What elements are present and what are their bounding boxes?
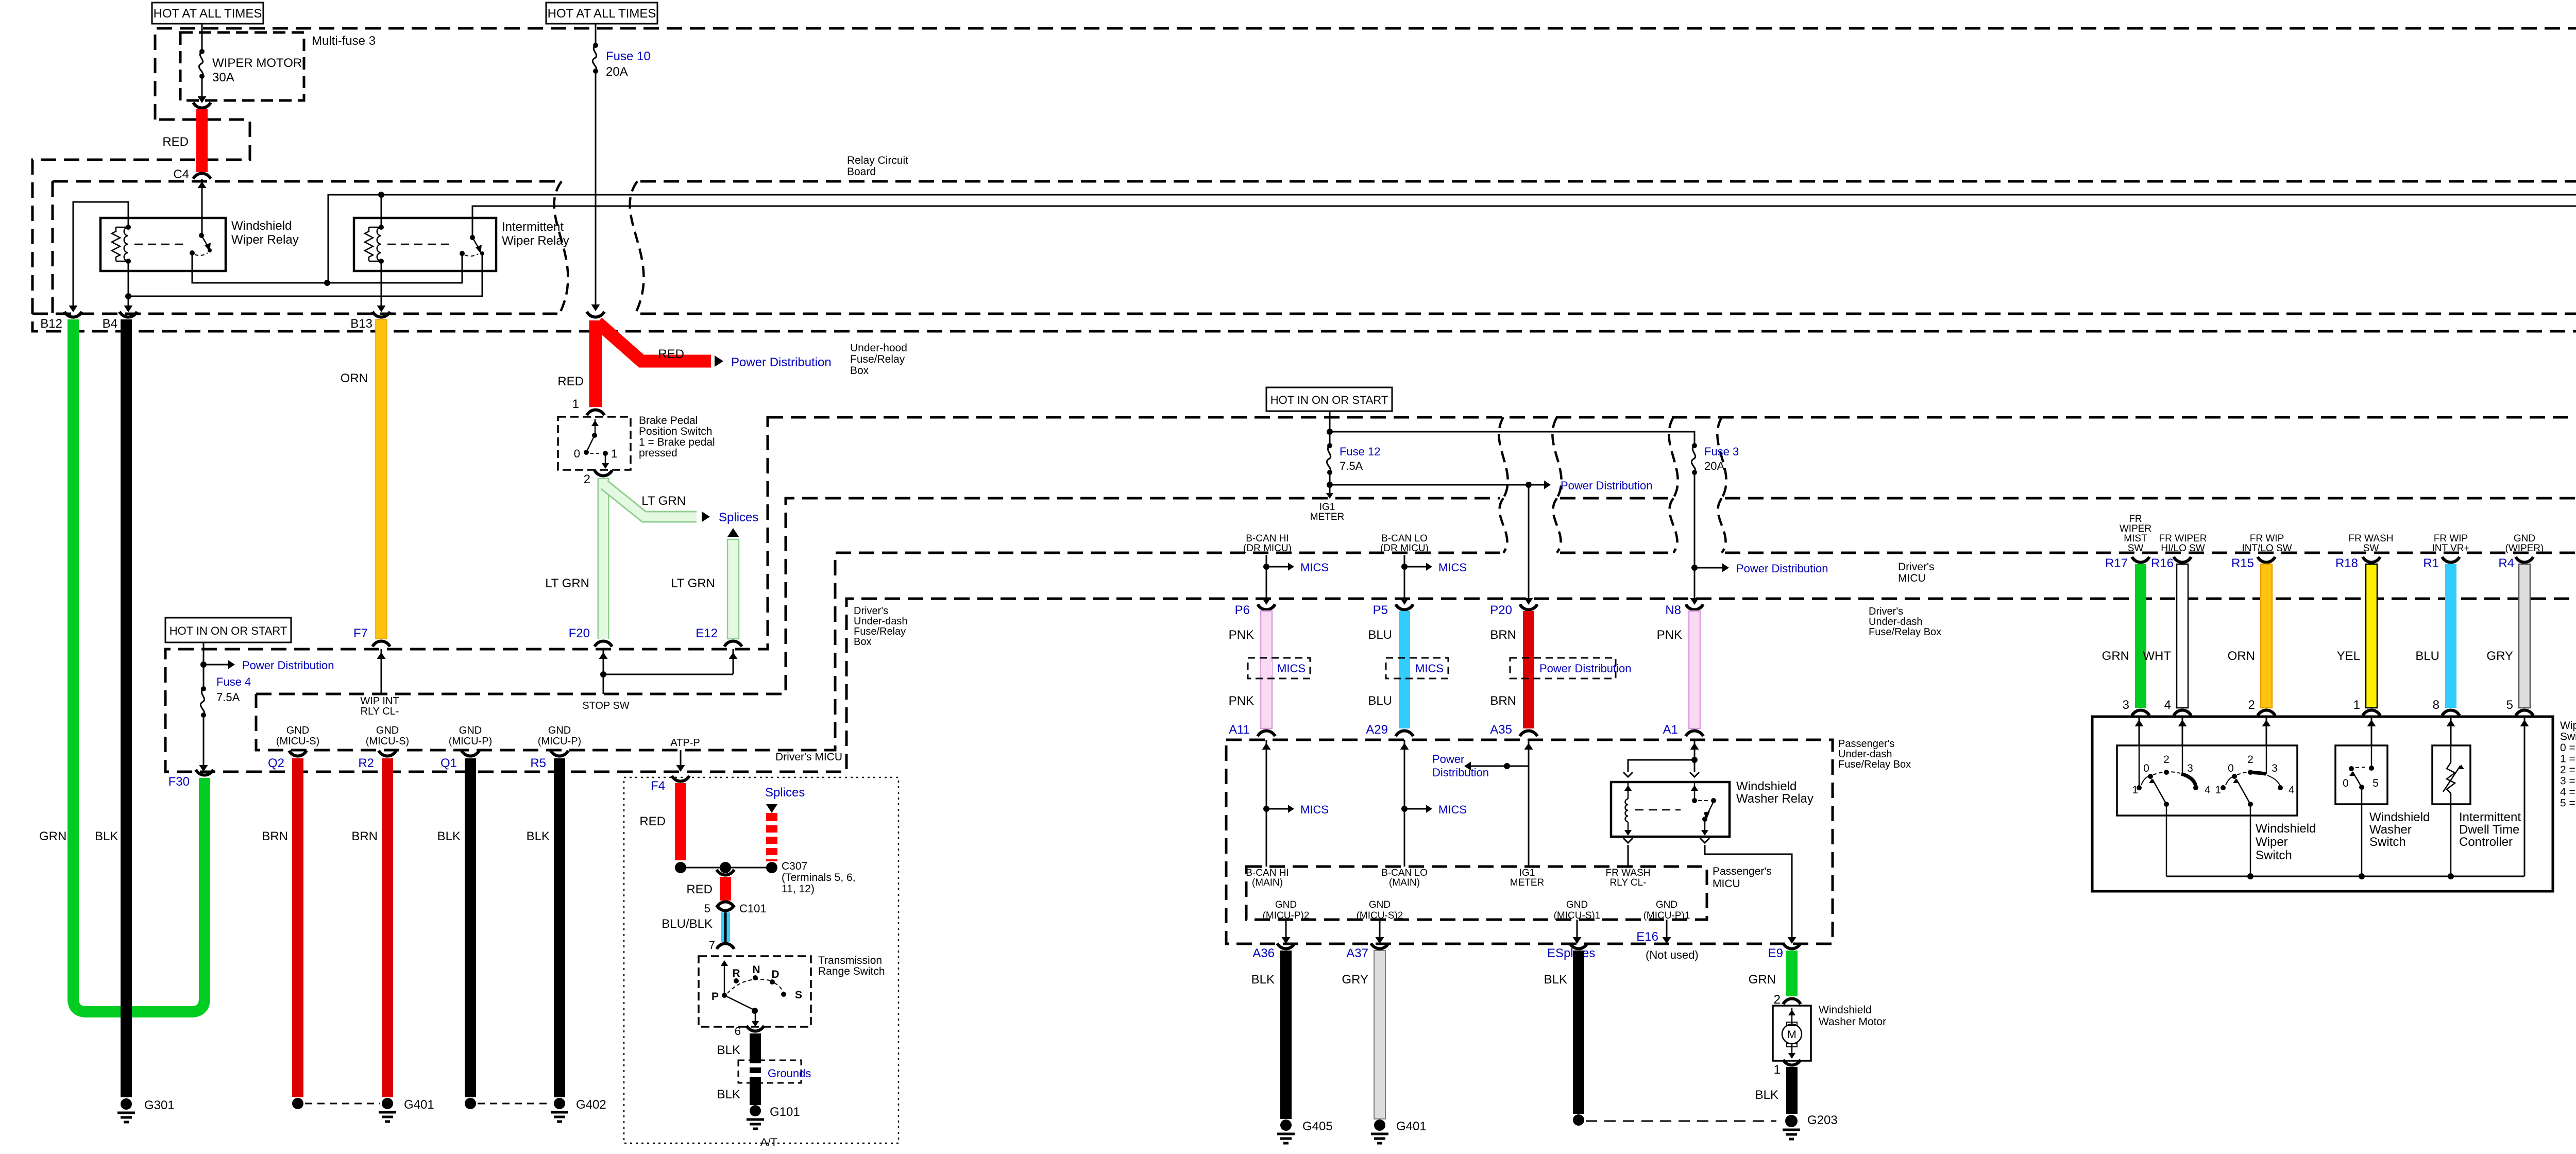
svg-text:4 = High: 4 = High <box>2560 786 2576 798</box>
svg-text:GRN: GRN <box>2102 649 2129 663</box>
wire relay1 NO contact line <box>192 253 462 283</box>
svg-text:B-CAN HI: B-CAN HI <box>1246 533 1289 544</box>
svg-text:0: 0 <box>574 447 580 460</box>
inline connector Power Distribution at P20 <box>1510 658 1616 678</box>
svg-text:pressed: pressed <box>639 447 677 459</box>
svg-text:Switch: Switch <box>2369 835 2406 849</box>
wire GRY A37 <box>1374 951 1385 1119</box>
svg-text:BRN: BRN <box>262 829 288 843</box>
svg-text:6: 6 <box>735 1025 741 1038</box>
svg-text:B13: B13 <box>350 317 372 331</box>
svg-text:GND: GND <box>376 725 399 736</box>
svg-text:BLK: BLK <box>717 1043 740 1057</box>
svg-text:Range Switch: Range Switch <box>818 965 885 977</box>
svg-text:F20: F20 <box>569 626 590 640</box>
svg-text:B-CAN HI: B-CAN HI <box>1246 868 1289 878</box>
wire PNK P6-A11 <box>1261 611 1272 728</box>
svg-text:GRN: GRN <box>39 829 66 843</box>
wiper/washer switch outer box <box>2092 717 2553 891</box>
svg-text:Wiper/Washer: Wiper/Washer <box>2560 720 2576 732</box>
svg-text:Dwell Time: Dwell Time <box>2459 823 2519 837</box>
svg-text:(MICU-S)1: (MICU-S)1 <box>1554 910 1601 921</box>
svg-text:Washer Motor: Washer Motor <box>1819 1016 1886 1028</box>
svg-text:FR: FR <box>2129 514 2142 524</box>
grounds inline connector <box>738 1060 801 1083</box>
svg-text:P20: P20 <box>1490 603 1512 617</box>
svg-text:1: 1 <box>2215 784 2221 796</box>
svg-text:Washer: Washer <box>2369 823 2412 837</box>
svg-text:RED: RED <box>639 814 666 828</box>
svg-text:7.5A: 7.5A <box>216 691 240 704</box>
svg-text:WIPER: WIPER <box>2120 523 2151 534</box>
driver's MICU break curves <box>1499 417 1507 498</box>
wire P5 feed <box>1404 555 1405 602</box>
svg-text:MICS: MICS <box>1415 662 1444 675</box>
svg-text:HOT IN ON OR START: HOT IN ON OR START <box>170 624 287 637</box>
svg-text:F30: F30 <box>168 775 190 789</box>
svg-text:Grounds: Grounds <box>768 1067 811 1080</box>
svg-text:B-CAN LO: B-CAN LO <box>1381 533 1428 544</box>
wire R5 BLK <box>554 758 565 1097</box>
svg-text:S: S <box>795 989 802 1001</box>
wire LT GRN E12 to splices <box>727 528 739 537</box>
fuse 12 7.5A <box>1327 443 1332 448</box>
svg-text:2 = Intermittent: 2 = Intermittent <box>2560 764 2576 776</box>
svg-text:N: N <box>752 964 760 976</box>
svg-text:A37: A37 <box>1346 946 1368 960</box>
svg-text:Fuse/Relay: Fuse/Relay <box>850 353 905 365</box>
wire BRN P20-A35 <box>1523 611 1534 728</box>
wire RED C4 <box>193 103 211 108</box>
svg-text:GND: GND <box>1275 900 1297 910</box>
svg-text:0: 0 <box>2343 777 2349 789</box>
svg-text:B4: B4 <box>103 317 117 331</box>
svg-text:BLU/BLK: BLU/BLK <box>662 917 713 931</box>
svg-text:GRN: GRN <box>1749 973 1776 987</box>
svg-text:GND: GND <box>2514 533 2535 544</box>
svg-text:BLK: BLK <box>1251 973 1275 987</box>
svg-text:Wiper Relay: Wiper Relay <box>231 233 299 247</box>
wire ORN R15 <box>2261 564 2272 708</box>
svg-text:Windshield: Windshield <box>1819 1004 1872 1016</box>
svg-text:MICS: MICS <box>1300 561 1329 574</box>
svg-text:GND: GND <box>1369 900 1391 910</box>
svg-text:20A: 20A <box>1704 460 1724 472</box>
svg-text:(MAIN): (MAIN) <box>1389 877 1420 888</box>
svg-text:Driver's MICU: Driver's MICU <box>775 751 842 763</box>
svg-text:F4: F4 <box>651 779 665 793</box>
svg-text:1: 1 <box>1774 1063 1781 1077</box>
svg-text:Driver's: Driver's <box>854 605 888 617</box>
inline connector MICS at P6 <box>1248 658 1310 678</box>
svg-text:Box: Box <box>854 636 871 648</box>
driver's MICU box outline <box>256 498 1500 694</box>
svg-text:ATP-P: ATP-P <box>670 737 700 749</box>
svg-text:WHT: WHT <box>2143 649 2171 663</box>
svg-text:R5: R5 <box>530 756 546 770</box>
svg-text:A36: A36 <box>1252 946 1275 960</box>
svg-text:G401: G401 <box>404 1098 434 1112</box>
svg-text:2: 2 <box>1774 993 1781 1007</box>
svg-text:(MICU-P)2: (MICU-P)2 <box>1263 910 1310 921</box>
svg-text:MICU: MICU <box>1713 878 1740 890</box>
svg-text:(Terminals 5, 6,: (Terminals 5, 6, <box>782 872 856 884</box>
wiper switch rotary 2 <box>2266 745 2267 773</box>
svg-text:G401: G401 <box>1396 1119 1427 1133</box>
HOT IN ON OR START box 1 <box>165 618 291 642</box>
svg-text:Wiper Relay: Wiper Relay <box>502 234 569 248</box>
svg-text:Q1: Q1 <box>440 756 457 770</box>
passenger's under-dash fuse/relay box <box>1226 740 1833 944</box>
svg-text:P6: P6 <box>1235 603 1250 617</box>
svg-text:Position Switch: Position Switch <box>639 426 712 437</box>
svg-text:F7: F7 <box>353 626 368 640</box>
wire YEL R18 <box>2366 564 2377 708</box>
svg-text:0 = Off: 0 = Off <box>2560 742 2576 754</box>
svg-text:3: 3 <box>2123 698 2129 712</box>
wire LT GRN branch to splices <box>604 485 697 517</box>
windshield wiper relay <box>100 218 226 271</box>
svg-text:(DR MICU): (DR MICU) <box>1243 543 1292 554</box>
svg-text:Splices: Splices <box>765 786 805 800</box>
svg-text:WIPER MOTOR: WIPER MOTOR <box>212 56 302 70</box>
wire BLK A36 <box>1280 951 1292 1119</box>
svg-text:ESplices: ESplices <box>1547 946 1595 960</box>
intermittent wiper relay <box>354 218 496 271</box>
ground G203 <box>1785 1115 1798 1127</box>
svg-text:Intermittent: Intermittent <box>502 220 564 234</box>
svg-text:1: 1 <box>2132 784 2138 796</box>
inline connector MICS at P5 <box>1386 658 1448 678</box>
svg-text:Switch: Switch <box>2256 848 2292 862</box>
svg-text:WIP INT: WIP INT <box>360 695 399 707</box>
svg-text:Q2: Q2 <box>268 756 284 770</box>
svg-text:(MICU-P)1: (MICU-P)1 <box>1643 910 1690 921</box>
wire BLU P5-A29 <box>1399 611 1410 728</box>
relay circuit board box <box>53 180 557 183</box>
wire BLK washer motor <box>1786 1067 1798 1114</box>
svg-text:BLK: BLK <box>527 829 550 843</box>
wire relay2 coil top <box>381 195 382 227</box>
svg-text:BLU: BLU <box>2415 649 2439 663</box>
wiper switch rotary 1 <box>2139 745 2140 786</box>
wire BLU/BLK <box>717 905 734 911</box>
svg-text:5: 5 <box>2506 698 2513 712</box>
svg-text:0: 0 <box>2143 762 2149 774</box>
svg-text:FR WIP: FR WIP <box>2250 533 2284 544</box>
svg-text:Washer Relay: Washer Relay <box>1736 792 1814 806</box>
wire A11 down <box>1266 740 1267 867</box>
wire washer relay coil to FR WASH pin <box>1623 838 1633 843</box>
svg-text:BLK: BLK <box>95 829 118 843</box>
svg-text:1 = Mist: 1 = Mist <box>2560 753 2576 765</box>
fuse 10 20A <box>595 24 597 45</box>
svg-text:A29: A29 <box>1366 723 1388 737</box>
svg-text:2: 2 <box>2247 754 2253 766</box>
svg-text:RED: RED <box>162 135 189 149</box>
svg-text:G203: G203 <box>1807 1113 1838 1127</box>
svg-text:IG1: IG1 <box>1319 502 1335 513</box>
svg-text:4: 4 <box>2205 784 2211 796</box>
wire fuse 10 down to B13 connector <box>595 71 597 307</box>
windshield washer switch box <box>2335 745 2387 804</box>
wire BLK to G101 <box>750 1033 761 1105</box>
svg-text:R18: R18 <box>2335 556 2358 570</box>
wire to fuse 12 <box>1329 411 1331 446</box>
svg-text:FR WASH: FR WASH <box>2349 533 2394 544</box>
svg-text:GND: GND <box>459 725 482 736</box>
svg-text:Fuse 3: Fuse 3 <box>1704 445 1739 458</box>
svg-text:Transmission: Transmission <box>818 955 882 966</box>
svg-text:Power Distribution: Power Distribution <box>1561 479 1653 492</box>
svg-text:7: 7 <box>709 939 715 952</box>
svg-text:E16: E16 <box>1636 930 1658 944</box>
svg-text:ORN: ORN <box>341 371 368 385</box>
svg-text:3 = Low: 3 = Low <box>2560 775 2576 787</box>
svg-text:Windshield: Windshield <box>2369 810 2430 824</box>
svg-text:Splices: Splices <box>719 511 758 524</box>
svg-text:HOT AT ALL TIMES: HOT AT ALL TIMES <box>154 7 262 21</box>
pin STOP SW <box>603 649 604 694</box>
wire GRN B12 to F30 <box>73 319 205 1012</box>
svg-text:BLU: BLU <box>1368 628 1392 642</box>
svg-text:7.5A: 7.5A <box>1340 460 1363 472</box>
svg-text:G301: G301 <box>144 1098 175 1112</box>
ground G405 <box>1280 1119 1292 1131</box>
svg-text:BLK: BLK <box>1544 973 1567 987</box>
svg-text:Driver's: Driver's <box>1898 561 1935 573</box>
svg-text:5 = Wash: 5 = Wash <box>2560 797 2576 809</box>
svg-text:INT/LO SW: INT/LO SW <box>2242 543 2292 554</box>
ground G402 <box>551 1111 568 1114</box>
under-hood fuse/relay box outline <box>32 28 2576 331</box>
svg-text:(MAIN): (MAIN) <box>1252 877 1283 888</box>
wire Q1 BLK <box>465 758 476 1097</box>
svg-text:BLK: BLK <box>717 1088 740 1101</box>
svg-text:RLY CL-: RLY CL- <box>361 706 399 717</box>
svg-text:(MICU-P): (MICU-P) <box>538 736 581 747</box>
svg-text:4: 4 <box>2164 698 2171 712</box>
svg-text:Distribution: Distribution <box>1432 766 1489 779</box>
HOT AT ALL TIMES box 2 <box>546 3 657 24</box>
svg-text:C101: C101 <box>739 902 767 915</box>
wire L2 relay2 COM to relay4 COM <box>472 206 2576 250</box>
svg-text:MIST: MIST <box>2124 533 2147 544</box>
svg-text:HI/LO SW: HI/LO SW <box>2161 543 2205 554</box>
wire wiper switch outputs to ground bus <box>2166 804 2167 876</box>
intermittent dwell time controller box <box>2432 745 2470 804</box>
passenger's MICU box <box>1246 867 1707 920</box>
svg-text:LT GRN: LT GRN <box>545 576 589 590</box>
multi-fuse 3 box <box>180 32 304 100</box>
svg-text:Windshield: Windshield <box>1736 779 1797 793</box>
wire hot to fuse 4 <box>203 642 205 689</box>
wire relay1 coil bottom to B4 and relay2 <box>128 254 482 296</box>
svg-text:3: 3 <box>2272 762 2278 774</box>
svg-text:Power Distribution: Power Distribution <box>1539 662 1632 675</box>
svg-text:GND: GND <box>548 725 571 736</box>
svg-text:Passenger's: Passenger's <box>1838 738 1894 750</box>
svg-text:IG1: IG1 <box>1519 868 1535 878</box>
wire R2 BRN <box>382 758 393 1097</box>
svg-text:3: 3 <box>2187 762 2193 774</box>
svg-text:(Not used): (Not used) <box>1646 948 1699 961</box>
driver's under-dash fuse/relay box outline <box>165 417 2576 772</box>
svg-text:Power Distribution: Power Distribution <box>731 355 832 369</box>
wire power distribution tap <box>1330 484 1546 486</box>
svg-text:Power: Power <box>1432 753 1464 766</box>
svg-text:Board: Board <box>847 166 876 178</box>
wire fuse 4 to F30 <box>203 715 205 768</box>
svg-text:11, 12): 11, 12) <box>782 883 815 895</box>
svg-text:4: 4 <box>2289 784 2295 796</box>
svg-text:Under-dash: Under-dash <box>1869 616 1923 627</box>
svg-text:FR WIP: FR WIP <box>2434 533 2468 544</box>
wire fuse12 to IG1 METER pin <box>1329 472 1331 496</box>
svg-text:BLK: BLK <box>437 829 461 843</box>
svg-text:C307: C307 <box>782 860 807 872</box>
svg-text:SW: SW <box>2363 543 2379 554</box>
brake pedal position switch <box>558 417 631 470</box>
svg-text:HOT IN ON OR START: HOT IN ON OR START <box>1270 394 1388 406</box>
svg-text:ORN: ORN <box>2228 649 2255 663</box>
wire washer relay NO to E9 <box>1700 838 1709 843</box>
svg-text:1 = Brake pedal: 1 = Brake pedal <box>639 436 715 448</box>
wire BLU R1 <box>2445 564 2456 708</box>
connector fuse10-red <box>587 312 604 317</box>
svg-text:Power Distribution: Power Distribution <box>242 659 334 672</box>
svg-text:METER: METER <box>1310 512 1345 522</box>
svg-text:Driver's: Driver's <box>1869 606 1903 617</box>
svg-text:Multi-fuse 3: Multi-fuse 3 <box>312 34 376 48</box>
svg-text:N8: N8 <box>1665 603 1681 617</box>
svg-text:P: P <box>711 991 719 1003</box>
svg-text:Windshield: Windshield <box>2256 822 2316 836</box>
svg-text:Fuse 10: Fuse 10 <box>606 49 651 63</box>
svg-text:Switch: Switch <box>2560 731 2576 743</box>
svg-text:YEL: YEL <box>2337 649 2360 663</box>
wire switch ground bus <box>2166 876 2524 877</box>
wire dashed Q2-G401 <box>305 1103 380 1105</box>
svg-text:G402: G402 <box>576 1098 606 1112</box>
relay circuit board break curves <box>554 181 568 314</box>
svg-text:A35: A35 <box>1490 723 1512 737</box>
svg-text:RED: RED <box>686 883 713 896</box>
svg-text:R16: R16 <box>2151 556 2174 570</box>
svg-text:Wiper: Wiper <box>2256 835 2288 849</box>
pin WIP INT RLY CL- <box>381 649 382 694</box>
svg-text:Brake Pedal: Brake Pedal <box>639 415 698 427</box>
svg-text:RED: RED <box>557 375 584 388</box>
svg-text:P5: P5 <box>1373 603 1388 617</box>
wire P20 feed <box>1526 482 1532 488</box>
svg-text:INT VR+: INT VR+ <box>2432 543 2469 554</box>
svg-text:R: R <box>732 968 740 979</box>
wire PNK N8-A1 <box>1689 611 1700 728</box>
svg-text:RED: RED <box>658 347 684 361</box>
wire LT GRN F20 <box>598 478 609 639</box>
wire RED fuse10 branch <box>589 320 602 407</box>
node relay2 coil top junction <box>378 192 384 198</box>
svg-text:Relay Circuit: Relay Circuit <box>847 155 908 166</box>
svg-text:5: 5 <box>704 902 710 915</box>
svg-text:LT GRN: LT GRN <box>641 494 686 508</box>
svg-text:SW: SW <box>2128 543 2144 554</box>
wire relay1 coil top to B12 <box>73 202 128 308</box>
svg-text:Box: Box <box>850 365 869 377</box>
wire C4 to windshield wiper relay <box>201 179 203 235</box>
wire GRN E9 <box>1786 951 1798 996</box>
svg-text:BRN: BRN <box>1490 694 1516 708</box>
wire Q2 BRN <box>292 758 303 1097</box>
svg-text:MICU: MICU <box>1898 572 1926 584</box>
svg-text:Under-hood: Under-hood <box>850 342 907 354</box>
HOT IN ON OR START box 2 <box>1266 387 1392 411</box>
svg-text:1: 1 <box>572 397 579 411</box>
svg-text:M: M <box>1787 1029 1797 1041</box>
svg-text:PNK: PNK <box>1229 628 1254 642</box>
svg-text:E12: E12 <box>696 626 718 640</box>
svg-text:FR WASH: FR WASH <box>1606 868 1651 878</box>
windshield washer relay <box>1611 782 1730 837</box>
svg-text:Fuse 4: Fuse 4 <box>216 675 251 688</box>
fuse 3 20A <box>1692 443 1697 448</box>
svg-text:(MICU-P): (MICU-P) <box>449 736 492 747</box>
node L1 junction <box>324 280 330 286</box>
svg-text:2: 2 <box>2248 698 2255 712</box>
svg-text:R15: R15 <box>2231 556 2254 570</box>
svg-text:1: 1 <box>2353 698 2360 712</box>
svg-text:BRN: BRN <box>351 829 378 843</box>
ground G101 <box>750 1105 761 1116</box>
svg-text:Controller: Controller <box>2459 835 2513 849</box>
svg-text:MICS: MICS <box>1438 803 1467 816</box>
svg-text:E9: E9 <box>1768 946 1783 960</box>
wire A35 down <box>1528 740 1530 867</box>
svg-text:FR WIPER: FR WIPER <box>2159 533 2207 544</box>
wire feed to fuse 3 <box>1330 432 1694 446</box>
svg-text:PNK: PNK <box>1657 628 1682 642</box>
svg-text:D: D <box>771 969 779 980</box>
svg-text:HOT AT ALL TIMES: HOT AT ALL TIMES <box>548 7 656 21</box>
svg-text:BLK: BLK <box>1755 1088 1778 1102</box>
svg-text:(DR MICU): (DR MICU) <box>1380 543 1429 554</box>
windshield washer motor <box>1773 1006 1811 1061</box>
ground G401 passenger <box>1374 1119 1385 1131</box>
svg-text:PNK: PNK <box>1229 694 1254 708</box>
svg-text:GND: GND <box>286 725 309 736</box>
svg-text:20A: 20A <box>606 65 628 79</box>
svg-text:A/T: A/T <box>760 1136 777 1148</box>
svg-text:Fuse/Relay Box: Fuse/Relay Box <box>1869 626 1941 638</box>
wire A29 down <box>1404 740 1405 867</box>
windshield wiper switch inner box <box>2117 745 2297 816</box>
svg-text:R17: R17 <box>2105 556 2128 570</box>
wire WHT R16 <box>2177 564 2188 708</box>
wire GRY R4 <box>2519 564 2530 708</box>
svg-text:(MICU-S): (MICU-S) <box>276 736 319 747</box>
fuse WIPER MOTOR 30A <box>201 24 203 52</box>
svg-text:2: 2 <box>584 472 590 486</box>
fuse 4 7.5A <box>201 686 206 691</box>
svg-text:GRY: GRY <box>1342 973 1368 987</box>
wire L1 long line <box>328 195 2576 283</box>
svg-text:BRN: BRN <box>1490 628 1516 642</box>
svg-text:R4: R4 <box>2498 556 2514 570</box>
svg-text:1: 1 <box>611 447 617 460</box>
wire GRN R17 <box>2135 564 2146 708</box>
svg-text:5: 5 <box>2372 777 2379 789</box>
